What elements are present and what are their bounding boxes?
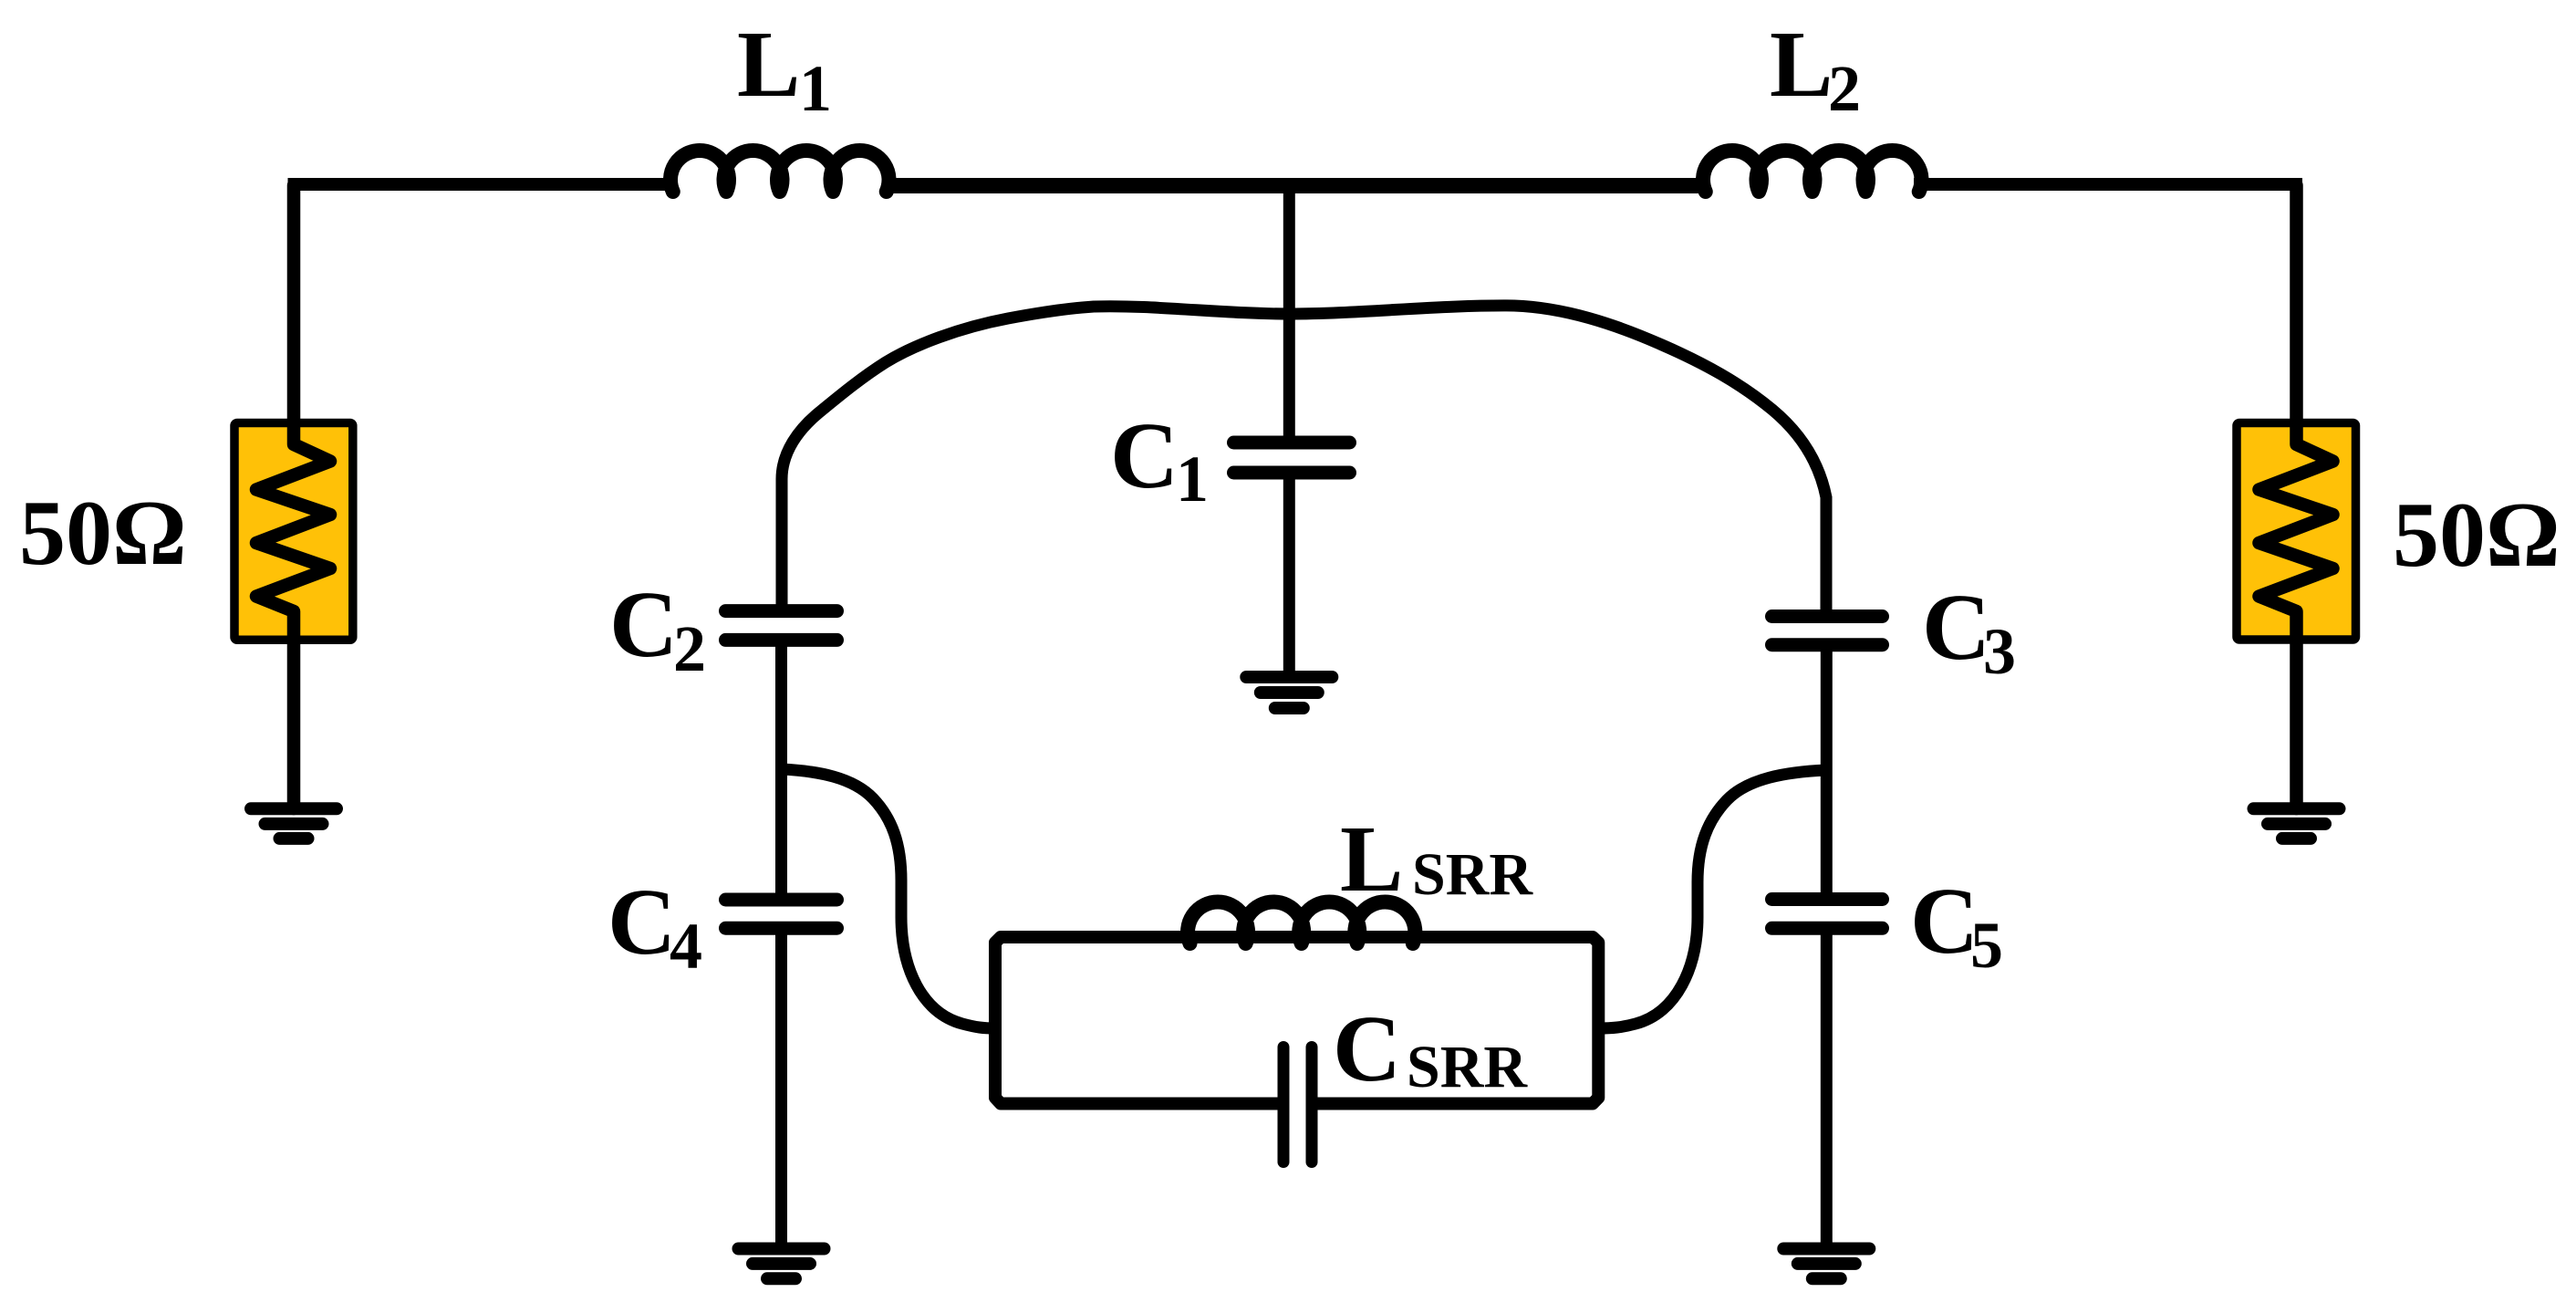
svg-text:2: 2	[673, 612, 706, 685]
svg-text:50Ω: 50Ω	[19, 482, 187, 585]
svg-text:SRR: SRR	[1407, 1034, 1528, 1100]
svg-text:L: L	[737, 12, 800, 117]
svg-text:5: 5	[1970, 909, 2003, 982]
svg-text:SRR: SRR	[1412, 841, 1533, 908]
svg-text:C: C	[1910, 869, 1979, 974]
svg-text:L: L	[1340, 807, 1403, 912]
svg-text:4: 4	[670, 910, 702, 983]
svg-text:C: C	[608, 870, 676, 974]
svg-text:2: 2	[1828, 52, 1861, 125]
svg-text:1: 1	[799, 52, 832, 125]
svg-text:C: C	[1110, 403, 1179, 508]
svg-text:C: C	[1333, 996, 1401, 1101]
svg-text:C: C	[609, 572, 678, 677]
svg-text:1: 1	[1176, 443, 1209, 516]
svg-text:L: L	[1770, 12, 1833, 117]
svg-text:C: C	[1922, 575, 1990, 680]
svg-text:50Ω: 50Ω	[2393, 484, 2560, 587]
svg-text:3: 3	[1983, 615, 2016, 688]
